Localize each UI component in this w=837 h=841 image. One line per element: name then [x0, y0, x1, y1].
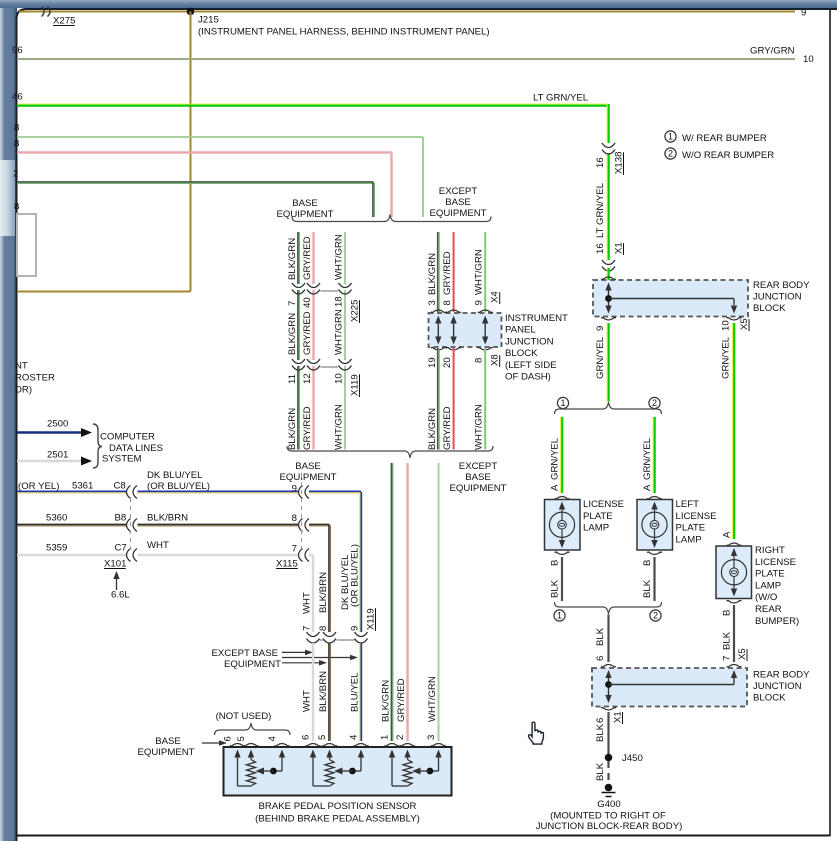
svg-text:X5: X5 — [737, 648, 748, 660]
svg-text:GRY/RED: GRY/RED — [302, 236, 313, 280]
wire GRY/RED to sensor — [406, 463, 408, 741]
svg-text:(LEFT SIDE: (LEFT SIDE — [505, 360, 557, 371]
svg-text:JUNCTION BLOCK-REAR BODY): JUNCTION BLOCK-REAR BODY) — [536, 821, 683, 832]
svg-text:BLK: BLK — [722, 631, 733, 650]
svg-text:(NOT USED): (NOT USED) — [216, 711, 272, 722]
svg-text:LICENSE: LICENSE — [676, 511, 717, 522]
ground G400 — [605, 784, 613, 792]
svg-text:7: 7 — [302, 626, 313, 631]
svg-text:5359: 5359 — [46, 543, 67, 554]
wires right trio below block — [437, 348, 439, 450]
brace equipment merge (middle) — [287, 446, 493, 458]
svg-text:X138: X138 — [614, 152, 625, 174]
svg-text:LAMP: LAMP — [676, 534, 702, 545]
rear body junction block upper — [593, 280, 748, 317]
wire BLK/GRN right trio — [437, 232, 439, 312]
svg-text:GRN/YEL: GRN/YEL — [721, 336, 732, 379]
svg-text:EQUIPMENT: EQUIPMENT — [224, 659, 281, 670]
wire DK BLU/YEL vertical — [360, 492, 362, 632]
svg-text:INSTRUMENT: INSTRUMENT — [505, 313, 568, 324]
svg-text:6: 6 — [595, 718, 606, 723]
brace lamp variants top — [555, 402, 662, 414]
svg-text:4: 4 — [267, 736, 278, 742]
wire WHT/GRN horizontal left — [17, 136, 423, 138]
wire 5361 DK BLU/YEL — [17, 490, 127, 492]
svg-text:C8: C8 — [114, 481, 126, 492]
wire BLK merged — [607, 615, 609, 663]
svg-text:BASE: BASE — [465, 472, 491, 483]
svg-text:BLK/GRN: BLK/GRN — [427, 253, 438, 295]
connector pin 8 X115 — [299, 519, 303, 532]
svg-text:5360: 5360 — [46, 513, 67, 524]
wire olive vertical from J215 — [190, 12, 192, 292]
svg-text:NT: NT — [15, 361, 28, 372]
svg-text:9: 9 — [292, 484, 297, 495]
svg-text:B: B — [722, 610, 733, 616]
svg-text:8: 8 — [442, 300, 453, 305]
svg-text:J215: J215 — [198, 15, 219, 26]
svg-text:2: 2 — [668, 149, 673, 159]
svg-text:BLK/BRN: BLK/BRN — [147, 513, 188, 524]
svg-text:BLK: BLK — [595, 723, 606, 742]
svg-text:EXCEPT: EXCEPT — [459, 461, 498, 472]
svg-text:X225: X225 — [350, 300, 361, 322]
svg-text:46: 46 — [12, 92, 23, 103]
svg-text:WHT: WHT — [302, 592, 313, 614]
circled 2 below — [650, 610, 661, 621]
svg-text:6: 6 — [223, 736, 234, 741]
brace lamp grounds merge — [555, 602, 662, 614]
svg-text:WHT: WHT — [302, 690, 313, 712]
svg-text:GRY/GRN: GRY/GRN — [750, 46, 795, 57]
potentiometer R1 (not used) — [237, 757, 239, 786]
svg-text:RIGHT: RIGHT — [755, 545, 785, 556]
wire BLK/BRN vertical — [328, 525, 330, 632]
svg-text:BRAKE PEDAL POSITION SENSOR: BRAKE PEDAL POSITION SENSOR — [259, 801, 417, 812]
connector pin 9 X115 — [299, 486, 303, 499]
svg-text:9: 9 — [474, 300, 485, 305]
wire GRY/GRN circuit 10 — [17, 58, 795, 60]
svg-text:X1: X1 — [614, 242, 625, 254]
svg-text:GRN/YEL: GRN/YEL — [595, 336, 606, 379]
svg-text:12: 12 — [302, 373, 313, 384]
svg-text:2: 2 — [652, 398, 657, 408]
instrument panel junction block — [429, 313, 502, 347]
note legend circled 1 W/ REAR BUMPER — [665, 131, 676, 142]
wire circuit 9 (olive) top horizontal — [19, 11, 795, 13]
connector link dashes X101 — [130, 498, 132, 550]
svg-text:(INSTRUMENT PANEL HARNESS, BEH: (INSTRUMENT PANEL HARNESS, BEHIND INSTRU… — [198, 27, 490, 38]
svg-text:3: 3 — [427, 300, 438, 305]
svg-text:X115: X115 — [276, 559, 298, 570]
svg-text:5361: 5361 — [72, 481, 93, 492]
svg-text:4: 4 — [349, 734, 360, 740]
brace not used pins — [215, 723, 291, 735]
svg-text:19: 19 — [427, 357, 438, 368]
svg-text:GRY/RED: GRY/RED — [302, 311, 313, 355]
svg-text:JUNCTION: JUNCTION — [753, 681, 802, 692]
svg-text:3: 3 — [426, 735, 437, 740]
svg-text:W/O REAR BUMPER: W/O REAR BUMPER — [682, 150, 774, 161]
svg-text:1: 1 — [557, 611, 562, 621]
connector X138 — [607, 144, 611, 150]
wires middle verticals below X119 — [312, 643, 314, 741]
svg-text:7: 7 — [287, 301, 298, 306]
svg-text:LAMP: LAMP — [583, 523, 609, 534]
svg-text:LEFT: LEFT — [676, 499, 700, 510]
svg-text:8: 8 — [14, 123, 19, 134]
svg-text:SYSTEM: SYSTEM — [102, 454, 141, 465]
svg-text:WHT/GRN: WHT/GRN — [334, 234, 345, 280]
svg-text:EXCEPT BASE: EXCEPT BASE — [212, 648, 278, 659]
wire BLK to J450 — [607, 712, 609, 754]
circled 1 (lamp variant) — [557, 397, 568, 408]
svg-text:BLK/GRN: BLK/GRN — [381, 680, 392, 722]
connector C7 X101 — [127, 549, 131, 562]
wire 5360 BLK/BRN — [17, 523, 127, 525]
svg-text:EQUIPMENT: EQUIPMENT — [276, 209, 333, 220]
svg-text:EXCEPT: EXCEPT — [439, 186, 478, 197]
wire GRN/YEL right branch to right lamp — [732, 323, 734, 539]
connector X119 upper — [297, 360, 301, 366]
svg-text:X101: X101 — [104, 559, 126, 570]
potentiometer R2 — [312, 757, 314, 786]
connector B8 — [127, 519, 131, 532]
sensor pin connector arcs — [230, 744, 245, 746]
svg-text:DR): DR) — [15, 385, 32, 396]
svg-text:A: A — [722, 531, 733, 538]
svg-text:X8: X8 — [490, 354, 501, 366]
svg-text:BLOCK: BLOCK — [753, 693, 786, 704]
svg-text:J450: J450 — [622, 753, 643, 764]
splice J450 — [605, 754, 613, 762]
wire WHT/GRN right trio — [484, 232, 486, 312]
svg-text:6: 6 — [595, 656, 606, 661]
wire olive horizontal to left edge — [17, 291, 191, 293]
svg-text:REAR BODY: REAR BODY — [753, 280, 810, 291]
svg-text:6.6L: 6.6L — [111, 590, 130, 601]
svg-text:BLK/BRN: BLK/BRN — [318, 671, 329, 712]
svg-text:WHT: WHT — [147, 540, 169, 551]
wire A GRN/YEL to left license lamp — [652, 417, 654, 493]
svg-text:(BEHIND BRAKE PEDAL ASSEMBLY): (BEHIND BRAKE PEDAL ASSEMBLY) — [255, 814, 420, 825]
rear body junction block lower — [592, 668, 747, 707]
connector arcs into lower junction block — [601, 665, 616, 667]
svg-text:BLK/GRN: BLK/GRN — [287, 313, 298, 355]
svg-text:18: 18 — [334, 296, 345, 307]
svg-text:BLK: BLK — [595, 627, 606, 646]
svg-text:GRY/RED: GRY/RED — [442, 406, 453, 450]
svg-text:9: 9 — [350, 626, 361, 631]
svg-text:A: A — [642, 484, 653, 491]
svg-text:REAR: REAR — [755, 604, 782, 615]
svg-text:5: 5 — [317, 735, 328, 740]
svg-text:WHT/GRN: WHT/GRN — [474, 404, 485, 450]
wire WHT/GRN to sensor — [438, 463, 440, 741]
svg-text:BLOCK: BLOCK — [505, 348, 538, 359]
lamp LICENSE PLATE LAMP — [555, 497, 570, 499]
svg-text:WHT/GRN: WHT/GRN — [334, 309, 345, 355]
svg-text:OF DASH): OF DASH) — [505, 372, 551, 383]
arrow 6.6L pointing to X101 — [116, 577, 118, 590]
svg-text:11: 11 — [287, 374, 298, 384]
svg-text:(OR BLU/YEL): (OR BLU/YEL) — [147, 481, 210, 492]
svg-text:7: 7 — [722, 656, 733, 661]
svg-text:16: 16 — [595, 243, 606, 254]
svg-text:REAR BODY: REAR BODY — [753, 670, 810, 681]
wire A GRN/YEL to license lamp — [560, 417, 562, 493]
connector X275 — [42, 7, 45, 17]
brace equipment split (top) — [292, 215, 491, 222]
svg-text:WHT/GRN: WHT/GRN — [427, 676, 438, 722]
svg-text:LT GRN/YEL: LT GRN/YEL — [595, 182, 606, 238]
svg-text:BASE: BASE — [295, 461, 321, 472]
wire 2501 computer data line — [17, 460, 82, 462]
svg-text:LT GRN/YEL: LT GRN/YEL — [533, 93, 589, 104]
svg-text:EQUIPMENT: EQUIPMENT — [279, 472, 336, 483]
connector pin 7 X115 — [299, 549, 303, 562]
circled 1 below — [554, 610, 565, 621]
svg-text:B8: B8 — [115, 513, 127, 524]
partial component box (left, cut off) — [17, 214, 36, 276]
svg-text:BLK: BLK — [642, 579, 653, 598]
note legend circled 2 W/O REAR BUMPER — [665, 148, 676, 159]
svg-text:BASE: BASE — [445, 197, 471, 208]
wire BLK dashed to ground — [607, 761, 609, 784]
svg-text:EQUIPMENT: EQUIPMENT — [449, 483, 506, 494]
svg-text:PLATE: PLATE — [583, 511, 613, 522]
svg-text:2: 2 — [13, 169, 18, 180]
svg-text:LICENSE: LICENSE — [583, 499, 624, 510]
svg-text:BASE: BASE — [292, 198, 318, 209]
svg-text:C7: C7 — [115, 543, 127, 554]
mouse cursor — [528, 722, 543, 744]
wire 2500 computer data line — [17, 431, 82, 433]
svg-text:10: 10 — [803, 54, 814, 65]
potentiometer R3 — [391, 757, 393, 786]
svg-text:GRN/YEL: GRN/YEL — [550, 437, 561, 480]
circled 2 (lamp variant) — [649, 397, 660, 408]
svg-text:G400: G400 — [597, 799, 620, 810]
svg-text:8: 8 — [474, 358, 485, 363]
svg-text:WHT/GRN: WHT/GRN — [474, 249, 485, 295]
wire GRY/RED horizontal left — [17, 151, 392, 153]
connector C8 — [127, 486, 131, 499]
svg-text:BLK/GRN: BLK/GRN — [287, 238, 298, 280]
svg-text:B: B — [642, 560, 653, 566]
svg-text:5: 5 — [236, 736, 247, 741]
brake pedal position sensor box — [224, 747, 452, 796]
svg-text:1: 1 — [560, 398, 565, 408]
svg-text:16: 16 — [595, 157, 606, 168]
svg-text:GRN/YEL: GRN/YEL — [642, 437, 653, 480]
svg-text:COMPUTER: COMPUTER — [100, 432, 155, 443]
svg-text:20: 20 — [442, 357, 453, 368]
svg-text:1: 1 — [380, 735, 391, 740]
svg-text:X119: X119 — [350, 374, 361, 396]
svg-text:JUNCTION: JUNCTION — [753, 292, 802, 303]
svg-text:X275: X275 — [53, 16, 75, 27]
svg-text:JUNCTION: JUNCTION — [505, 336, 554, 347]
svg-text:BLK: BLK — [550, 579, 561, 598]
svg-text:7: 7 — [292, 544, 297, 555]
svg-text:WHT/GRN: WHT/GRN — [334, 404, 345, 450]
connector link dashes X115 — [301, 474, 303, 548]
svg-text:8: 8 — [14, 202, 19, 213]
svg-text:8: 8 — [318, 626, 329, 631]
svg-text:9: 9 — [595, 326, 606, 331]
svg-text:BLK/GRN: BLK/GRN — [427, 408, 438, 450]
svg-text:BASE: BASE — [155, 736, 181, 747]
wire 5359 WHT — [17, 554, 127, 556]
svg-text:EQUIPMENT: EQUIPMENT — [137, 747, 194, 758]
wire BLK/GRN to sensor — [390, 463, 392, 741]
svg-text:BLK: BLK — [595, 762, 606, 781]
svg-text:X4: X4 — [490, 291, 501, 303]
wire GRY/RED left trio — [312, 232, 314, 450]
svg-text:B: B — [550, 560, 561, 566]
svg-text:(OR YEL): (OR YEL) — [18, 481, 59, 492]
wire WHT vertical — [312, 555, 314, 632]
svg-text:LICENSE: LICENSE — [755, 557, 796, 568]
svg-text:PLATE: PLATE — [676, 523, 706, 534]
svg-text:8: 8 — [14, 139, 19, 150]
brace computer data lines — [93, 424, 102, 468]
svg-text:9: 9 — [801, 8, 806, 19]
wire LT GRN/YEL vertical — [606, 153, 608, 260]
svg-text:BUMPER): BUMPER) — [755, 616, 799, 627]
lamp LEFT LICENSE PLATE LAMP — [647, 497, 662, 499]
svg-text:GRY/RED: GRY/RED — [302, 406, 313, 450]
svg-text:8: 8 — [292, 513, 297, 524]
svg-text:X119: X119 — [366, 608, 377, 630]
wire BLK from left license lamp — [653, 557, 655, 601]
wire BLK/GRN horizontal left — [17, 181, 374, 183]
svg-text:2: 2 — [395, 735, 406, 740]
svg-text:X1: X1 — [613, 711, 624, 723]
svg-text:40: 40 — [302, 297, 313, 308]
svg-text:(OR BLU/YEL): (OR BLU/YEL) — [350, 544, 361, 607]
connector X119 lower — [311, 633, 315, 639]
svg-text:BLU/YEL: BLU/YEL — [350, 672, 361, 712]
svg-text:BLK/GRN: BLK/GRN — [287, 408, 298, 450]
svg-text:BLK/BRN: BLK/BRN — [318, 572, 329, 613]
svg-text:GRY/RED: GRY/RED — [396, 678, 407, 722]
svg-text:EQUIPMENT: EQUIPMENT — [429, 208, 486, 219]
svg-text:6: 6 — [301, 735, 312, 740]
svg-text:1: 1 — [668, 132, 673, 142]
wire WHT/GRN left trio — [344, 232, 346, 450]
svg-text:DATA LINES: DATA LINES — [109, 443, 163, 454]
wire BLK from license lamp — [561, 557, 563, 601]
splice J215 — [187, 8, 195, 16]
svg-text:GRY/RED: GRY/RED — [442, 251, 453, 295]
svg-text:ROSTER: ROSTER — [15, 373, 55, 384]
svg-text:PLATE: PLATE — [755, 569, 785, 580]
wire LT GRN/YEL horizontal — [17, 103, 607, 105]
svg-text:DK BLU/YEL: DK BLU/YEL — [147, 470, 203, 481]
svg-text:96: 96 — [12, 45, 23, 56]
svg-text:2: 2 — [653, 611, 658, 621]
wire BLK/GRN left trio — [297, 232, 299, 450]
svg-text:(MOUNTED TO RIGHT OF: (MOUNTED TO RIGHT OF — [550, 811, 666, 822]
svg-text:X5: X5 — [739, 318, 750, 330]
svg-text:2501: 2501 — [47, 450, 68, 461]
wire GRN/YEL left branch — [606, 323, 608, 402]
wire BLK from right lamp — [733, 605, 735, 662]
svg-text:W/ REAR BUMPER: W/ REAR BUMPER — [682, 133, 767, 144]
svg-text:PANEL: PANEL — [505, 325, 536, 336]
svg-text:10: 10 — [721, 320, 732, 331]
svg-text:A: A — [550, 484, 561, 491]
connector X225 — [297, 284, 301, 290]
svg-text:BLOCK: BLOCK — [753, 303, 786, 314]
svg-text:10: 10 — [334, 373, 345, 384]
wire GRY/RED right trio — [453, 232, 455, 312]
svg-text:2500: 2500 — [47, 419, 68, 430]
connector X1 lower — [601, 708, 616, 710]
svg-text:(W/O: (W/O — [755, 592, 777, 603]
svg-text:LAMP: LAMP — [755, 580, 781, 591]
